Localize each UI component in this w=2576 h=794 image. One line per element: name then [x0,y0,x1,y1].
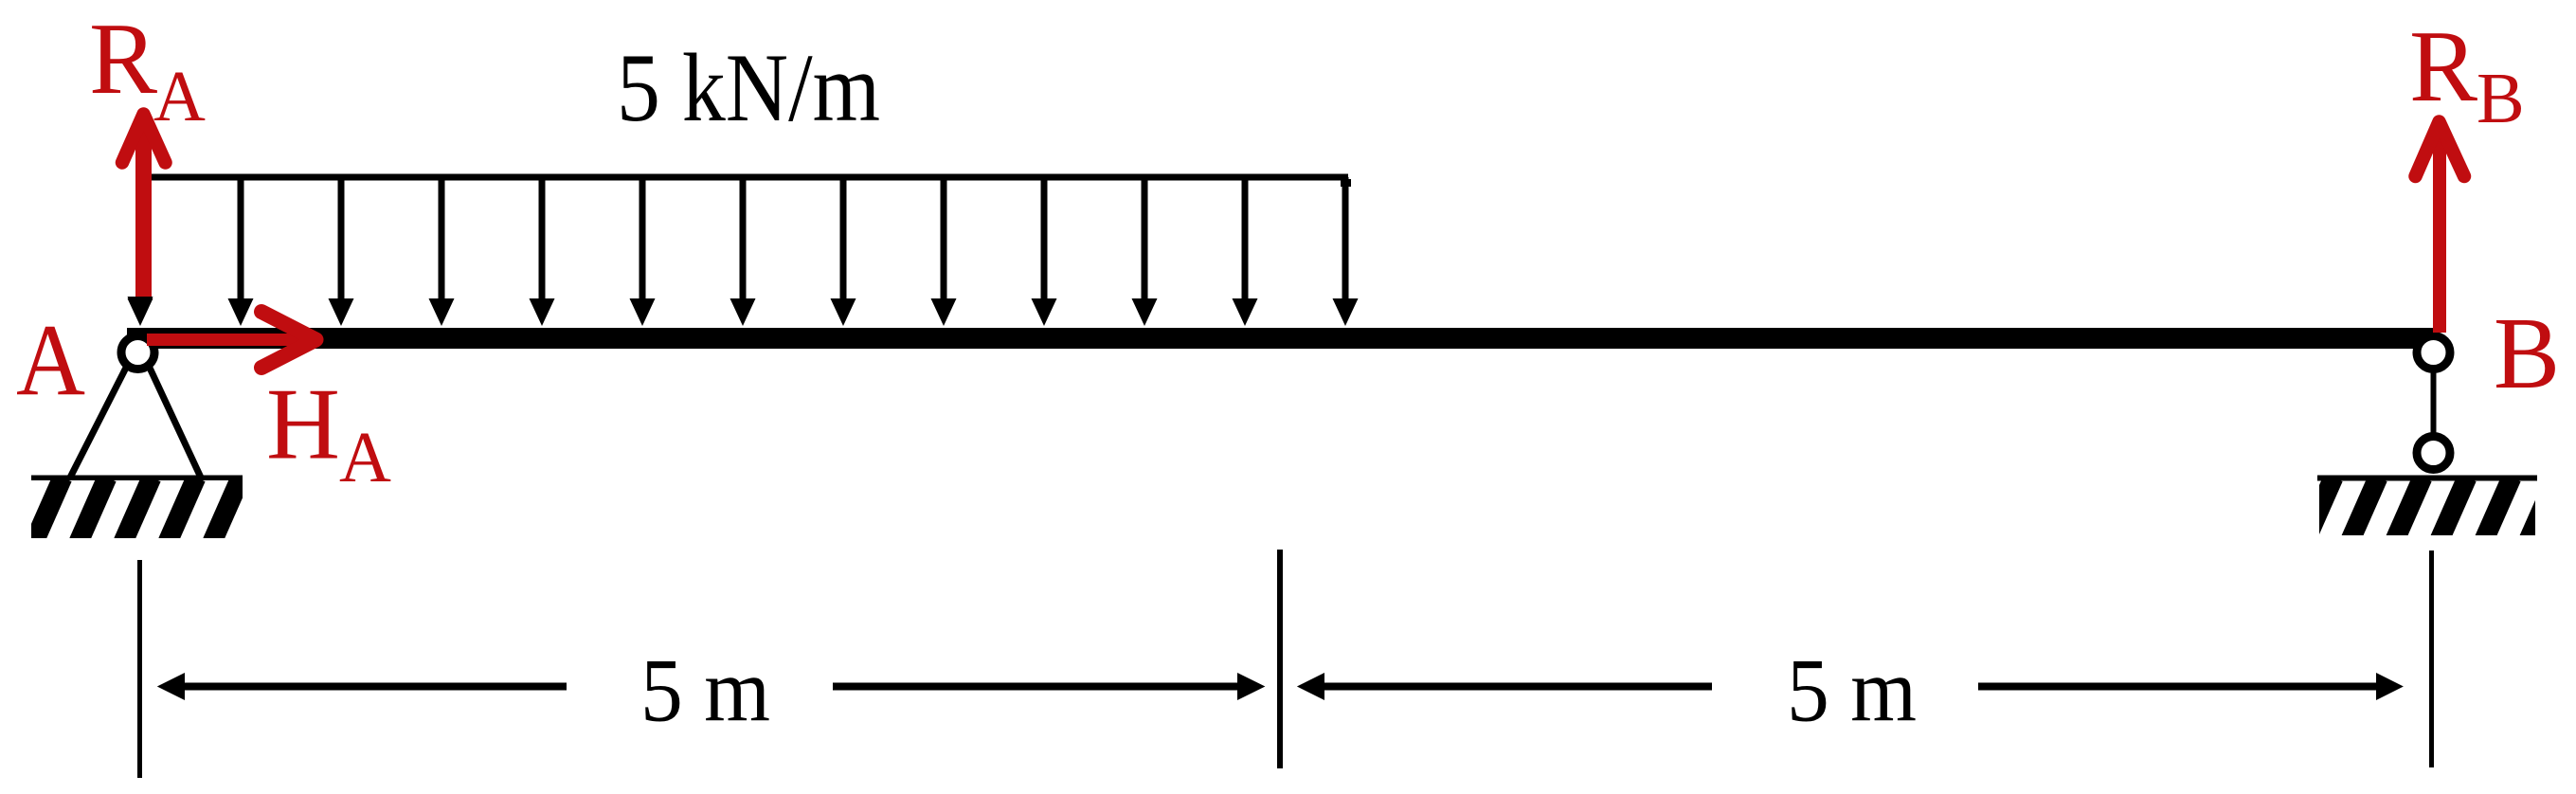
beam AB [127,328,2438,349]
reaction arrow HA [147,312,316,368]
svg-text:H: H [266,369,340,481]
support B roller top circle [2417,336,2450,370]
load arrow 1 head over RA [128,297,153,325]
svg-text:R: R [89,3,157,116]
load arrow 8 [831,177,856,326]
reaction arrow RA [122,115,166,300]
support B ground hatching [2305,478,2556,542]
svg-text:B: B [2477,59,2525,138]
svg-text:5 kN/m: 5 kN/m [617,34,880,142]
svg-text:5 m: 5 m [640,641,770,741]
load arrow 7 [730,177,756,326]
support B roller link [2431,370,2437,436]
load arrow 9 [931,177,957,326]
extension line at midspan [1277,550,1283,768]
svg-text:A: A [16,304,85,417]
support A triangle [70,366,201,478]
load arrow 1 [128,177,153,326]
label RB [2409,10,2525,138]
label HA [266,369,391,498]
support B ground line [2317,476,2537,481]
support A pin circle [121,336,154,370]
extension line under B [2429,550,2434,767]
load arrow 6 [630,177,656,326]
distributed load top line [138,174,1348,181]
svg-text:A: A [339,418,391,497]
load arrow 12 [1233,177,1258,326]
extension line under A [137,560,142,778]
reaction arrow RB [2416,122,2465,334]
svg-text:A: A [153,57,206,136]
load arrow 11 [1132,177,1158,326]
svg-text:5 m: 5 m [1787,641,1917,741]
load arrow 5 [530,177,555,326]
svg-text:R: R [2409,10,2477,123]
load arrow 13 [1333,177,1359,326]
distributed load line end step [1341,179,1351,187]
svg-text:B: B [2494,298,2560,410]
dimension line left segment 1 [157,673,567,700]
support A ground hatching [0,478,285,542]
label RA [89,3,206,136]
support B roller bottom circle [2417,437,2450,470]
support A ground line [31,476,243,481]
dimension line right segment 1 [1297,673,1712,700]
dimension line right segment 2 [1978,673,2404,700]
dimension line left segment 2 [833,673,1265,700]
load arrow 3 [329,177,354,326]
load arrow 4 [429,177,455,326]
load arrow 10 [1032,177,1057,326]
load arrow 2 [228,177,254,326]
